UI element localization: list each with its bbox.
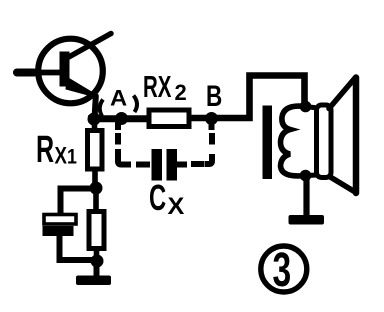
wire junction to electrolytic cap — [61, 189, 97, 216]
collector lead — [67, 34, 111, 59]
capacitor Cx right plate — [167, 149, 178, 181]
bottom junction dot — [91, 255, 104, 268]
speaker driver frame — [305, 105, 331, 178]
ground (left) — [76, 261, 111, 285]
emitter arrow — [66, 79, 90, 96]
transistor Q1 — [16, 34, 111, 120]
resistor RX2 — [149, 110, 189, 127]
label (A) — [100, 85, 137, 116]
node B junction dot — [205, 112, 218, 125]
svg-text:3: 3 — [273, 242, 292, 296]
wire RX2 to node B — [189, 115, 208, 122]
transistor circle — [38, 39, 103, 104]
coil top junction dot — [300, 101, 312, 113]
svg-text:A: A — [110, 85, 127, 110]
wire node A to RX2 — [88, 115, 151, 122]
svg-text:X: X — [55, 142, 68, 169]
base bar — [60, 52, 70, 87]
label RX1 — [36, 128, 77, 170]
transformer core bar — [263, 106, 273, 180]
dashed branch left (node A to Cx) — [118, 122, 150, 165]
svg-text:B: B — [206, 79, 222, 113]
resistor RX1 — [88, 119, 103, 188]
node A1 junction dot — [88, 113, 101, 126]
wire node A to RX1 — [92, 119, 98, 132]
svg-text:C: C — [149, 178, 166, 218]
wire node B to transformer (top path) — [211, 76, 305, 119]
junction node below RX1 — [90, 182, 103, 195]
voice coil — [281, 106, 306, 176]
wire cap to bottom junction — [60, 236, 98, 260]
figure number circle 3 — [261, 242, 307, 296]
svg-text:RX: RX — [143, 69, 172, 104]
emitter lead — [69, 81, 97, 98]
ground (speaker) — [289, 178, 325, 225]
coil bottom junction dot — [300, 170, 312, 182]
emitter stub to node A — [95, 96, 96, 119]
speaker cone — [329, 78, 356, 194]
node A2 junction dot — [115, 112, 128, 125]
svg-text:R: R — [36, 128, 54, 170]
svg-text:2: 2 — [175, 80, 187, 105]
base lead wire — [16, 70, 61, 76]
capacitor Cx left plate — [152, 149, 163, 181]
svg-text:1: 1 — [67, 145, 77, 169]
wire RX1 to junction — [92, 169, 98, 188]
dashed branch right (Cx to node B) — [177, 122, 212, 165]
resistor R (emitter bottom) — [89, 188, 104, 261]
electrolytic capacitor bottom plate — [43, 226, 74, 236]
electrolytic capacitor top plate — [44, 215, 76, 225]
label RX2 — [143, 69, 187, 105]
label Cx — [149, 178, 185, 220]
svg-text:X: X — [168, 194, 185, 220]
